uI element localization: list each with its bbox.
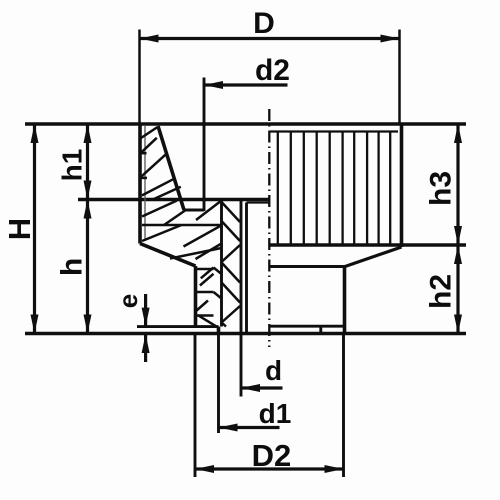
knurl vertical lines	[278, 132, 390, 245]
dimension d2 extension	[203, 78, 206, 212]
boss right edge	[319, 326, 322, 333]
insert outer diameter line	[220, 201, 223, 327]
arrow D left	[140, 35, 159, 43]
baseline bottom line	[25, 332, 466, 336]
D2 cylinder left edge	[194, 266, 198, 327]
centerline	[268, 109, 270, 347]
arrow h2 top	[454, 245, 462, 264]
svg-text:h1: h1	[57, 149, 88, 182]
svg-text:d2: d2	[255, 54, 290, 87]
arrow H top	[31, 124, 39, 143]
arrow h3 top	[454, 124, 462, 143]
arrow H bottom	[31, 315, 39, 334]
part top line with extensions	[25, 122, 466, 126]
head right edge	[400, 124, 404, 247]
bore thread major line	[240, 201, 243, 334]
dimension D2 right extension	[342, 335, 345, 477]
dimension D2 line	[195, 467, 344, 470]
arrow e top	[142, 308, 150, 327]
dimension h3 h2 line	[456, 124, 459, 334]
knurl root line left (faint)	[144, 126, 146, 241]
dimension D line	[140, 37, 400, 40]
arrow D2 right	[325, 465, 344, 473]
hatching skirt upper band	[142, 201, 222, 226]
knurl top line	[270, 130, 398, 132]
dimension H line	[33, 124, 36, 334]
step face left	[137, 325, 219, 328]
arrow h2 bottom	[454, 315, 462, 334]
arrow d2	[204, 81, 223, 89]
arrow h3 bottom	[454, 226, 462, 245]
svg-text:h3: h3	[425, 171, 458, 206]
dimension d line	[241, 386, 283, 389]
thread zone sawtooth	[222, 202, 241, 327]
hatching head wall	[141, 127, 181, 199]
arrow D right	[381, 35, 400, 43]
dimension D2 left extension	[194, 335, 197, 477]
arrow h bottom	[84, 315, 92, 334]
svg-text:D2: D2	[252, 438, 292, 473]
right skirt slope	[345, 247, 402, 267]
hub top face line (h1 level)	[78, 198, 270, 202]
svg-text:H: H	[2, 218, 37, 240]
dimension h1 h line	[86, 124, 89, 334]
arrow d	[241, 384, 260, 392]
svg-text:D: D	[253, 7, 275, 40]
dimension d1 line	[219, 426, 280, 429]
dimension D left extension	[138, 30, 141, 125]
cavity flat bottom	[184, 209, 204, 212]
hatching skirt lower band	[142, 225, 222, 259]
bore top chamfer edge	[247, 201, 270, 203]
dimension d2 line	[204, 83, 288, 86]
left skirt slope	[140, 244, 196, 267]
svg-text:d: d	[265, 355, 282, 386]
dimension d1 extension	[217, 335, 220, 433]
head left edge	[138, 124, 142, 244]
svg-text:e: e	[113, 294, 143, 308]
hatching hub strip	[196, 244, 222, 328]
arrow D2 left	[195, 465, 214, 473]
cavity slant wall	[158, 126, 184, 210]
boss left edge	[217, 327, 221, 334]
dimension D right extension	[398, 30, 401, 125]
cone bottom circle line	[270, 265, 346, 268]
arrow h top	[84, 200, 92, 219]
arrow h1 top	[84, 124, 92, 143]
arrow h1 bottom	[84, 181, 92, 200]
step face right	[269, 325, 344, 328]
svg-text:h: h	[56, 258, 89, 276]
svg-text:d1: d1	[259, 398, 292, 429]
D2 cylinder right edge	[343, 267, 347, 334]
arrow e bottom	[142, 334, 150, 353]
arrow d1	[219, 424, 238, 432]
dimension d extension	[240, 335, 243, 397]
knurl bottom line with right extension	[270, 243, 467, 247]
dimension e stems	[144, 294, 147, 327]
svg-text:h2: h2	[425, 274, 458, 309]
bore wall line	[245, 203, 248, 334]
